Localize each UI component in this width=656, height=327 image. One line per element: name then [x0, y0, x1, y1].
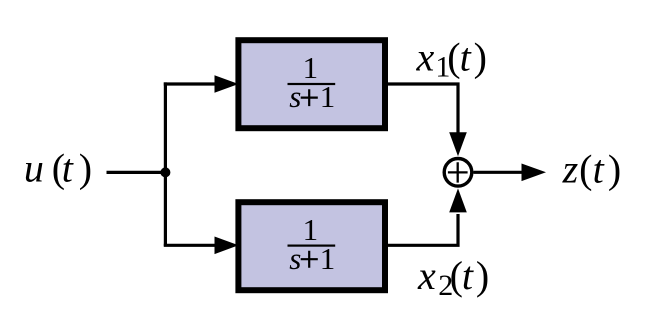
wire lower branch toward block H2: [164, 244, 216, 247]
svg-text:t: t: [62, 146, 74, 191]
wire output from summing junction S1: [474, 171, 523, 174]
label u(t) input signal: [24, 146, 92, 191]
wire from u(t) to node A: [107, 171, 166, 174]
block H2 denominator s+1: [289, 241, 335, 276]
svg-text:): ): [474, 35, 487, 80]
svg-text:t: t: [460, 35, 472, 80]
label x1(t) state one: [416, 35, 487, 84]
wire from block H2 output up to summing junction: [388, 214, 458, 245]
svg-text:u: u: [24, 146, 44, 191]
svg-text:): ): [608, 146, 621, 191]
svg-text:1: 1: [303, 212, 319, 247]
block H2 fraction bar: [288, 245, 336, 247]
svg-text:1: 1: [320, 241, 336, 276]
block H2 rectangle: [238, 202, 385, 290]
arrowhead down into summing junction S1: [449, 132, 467, 156]
block H1 fraction bar: [288, 83, 336, 85]
block H1 rectangle: [238, 40, 385, 128]
arrowhead output to z(t): [522, 164, 547, 182]
label z(t) output signal: [562, 146, 622, 191]
svg-text:x: x: [416, 35, 435, 80]
label x2(t) state two: [417, 253, 489, 302]
svg-text:s: s: [289, 79, 301, 114]
svg-text:s: s: [289, 241, 301, 276]
arrowhead into block H2: [215, 237, 239, 255]
svg-text:1: 1: [320, 79, 336, 114]
svg-text:): ): [476, 253, 489, 298]
wire from block H1 output down to summing junction: [388, 84, 458, 133]
block H1 denominator s+1: [289, 79, 335, 114]
arrowhead up into summing junction S1: [449, 188, 467, 212]
svg-text:t: t: [462, 253, 474, 298]
summing junction S1 circle: [444, 159, 472, 187]
svg-text:x: x: [417, 253, 436, 298]
summing junction S1 plus sign: [448, 162, 468, 182]
wire upper branch toward block H1: [164, 82, 216, 85]
node A junction dot: [160, 167, 170, 177]
arrowhead into block H1: [215, 75, 239, 93]
wire vertical trunk between branch corners: [164, 82, 167, 246]
svg-text:z: z: [562, 146, 579, 191]
svg-text:(: (: [579, 146, 592, 191]
svg-text:): ): [79, 146, 92, 191]
svg-text:1: 1: [303, 50, 319, 85]
svg-text:t: t: [593, 146, 605, 191]
